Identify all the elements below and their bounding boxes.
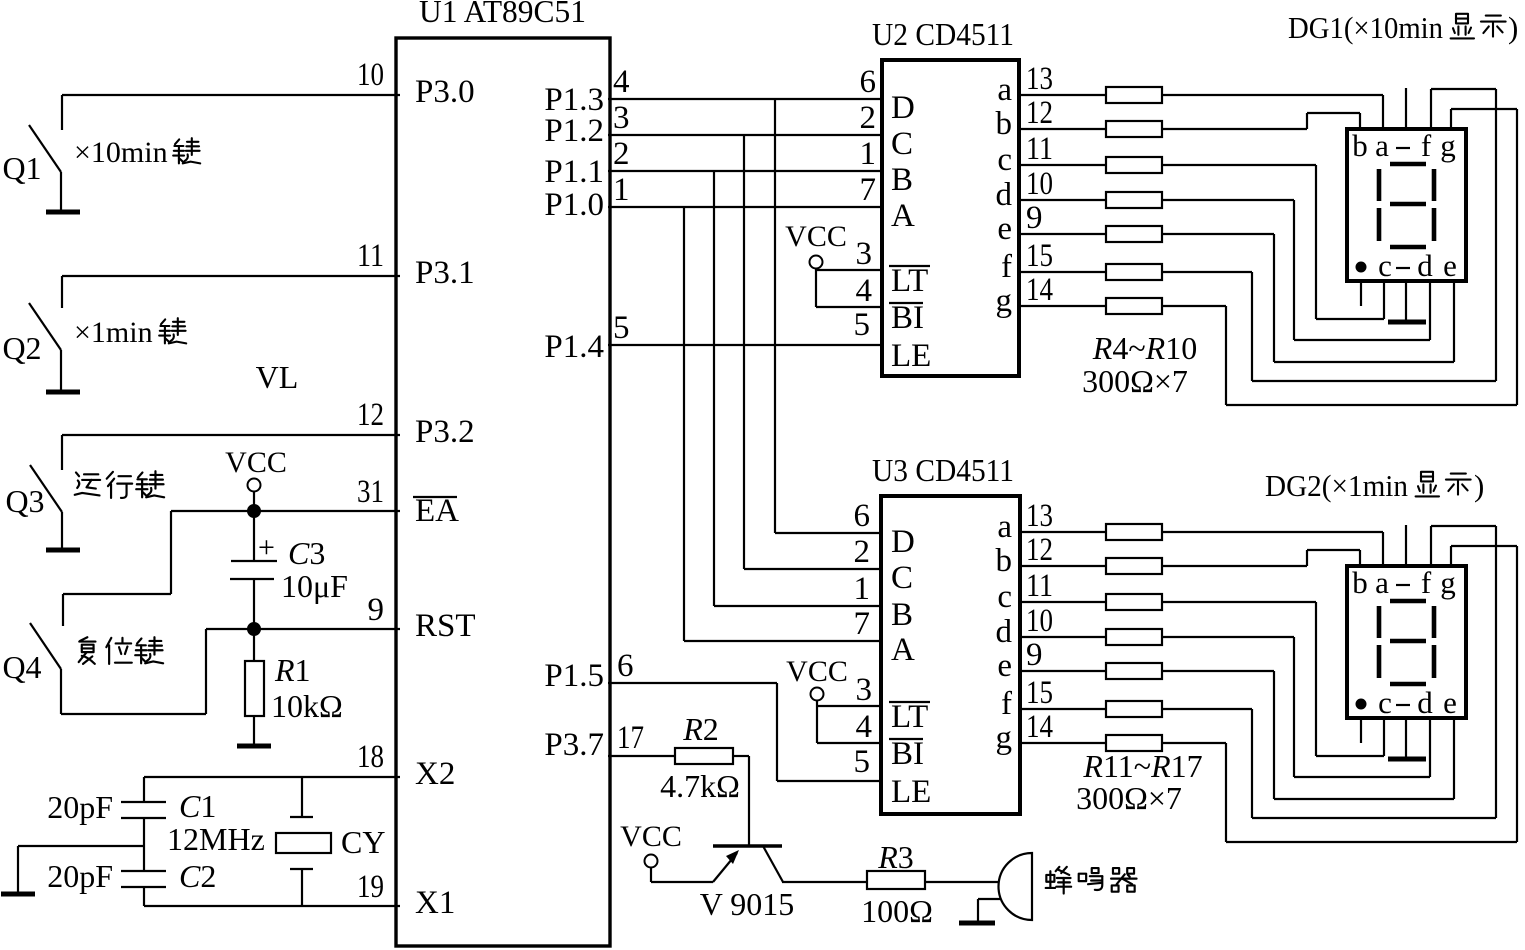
wire U3 e to resistor: [1020, 670, 1106, 672]
svg-text:a: a: [1375, 128, 1389, 163]
svg-text:×1min: ×1min: [74, 316, 153, 349]
capacitor C2: [121, 871, 166, 887]
resistor segment f (R11-R17): [1106, 701, 1162, 717]
resistor segment b (R11-R17): [1106, 558, 1162, 574]
svg-text:RST: RST: [415, 608, 476, 644]
wire segment-a net (DG1): [1162, 95, 1383, 129]
wire segment-c net (DG2): [1162, 602, 1384, 756]
svg-text:BI: BI: [891, 300, 924, 336]
svg-text:e: e: [1443, 248, 1457, 283]
svg-text:LE: LE: [891, 338, 931, 374]
svg-text:c: c: [1378, 685, 1392, 720]
svg-text:f: f: [1001, 249, 1012, 285]
wire segment-g net (DG1): [1162, 109, 1517, 405]
svg-text:LE: LE: [891, 774, 931, 810]
svg-text:): ): [1508, 10, 1518, 45]
segment top (DG1): [1390, 162, 1426, 167]
svg-text:14: 14: [1026, 272, 1053, 308]
resistor R2: [675, 748, 733, 764]
label reset key: [79, 637, 96, 664]
switch Q1: [29, 95, 62, 210]
svg-text:f: f: [1421, 565, 1432, 600]
junction node EA/VCC: [248, 505, 260, 517]
svg-text:e: e: [997, 648, 1012, 684]
svg-text:4.7kΩ: 4.7kΩ: [660, 768, 740, 804]
crystal CY: [276, 777, 331, 906]
svg-text:6: 6: [860, 64, 877, 100]
svg-text:Q4: Q4: [2, 649, 41, 685]
svg-text:X2: X2: [415, 756, 455, 792]
resistor segment f (R4-R10): [1106, 264, 1162, 280]
wire P1.1 to U2 B: [608, 170, 882, 172]
wire collector to R3: [782, 881, 867, 883]
svg-text:g: g: [1440, 128, 1456, 163]
svg-text:g: g: [996, 283, 1013, 319]
segment middle (DG1): [1390, 202, 1426, 207]
svg-text:2: 2: [613, 136, 630, 172]
buzzer: [999, 853, 1033, 920]
svg-text:d: d: [996, 614, 1013, 650]
svg-text:e: e: [1443, 685, 1457, 720]
wire U2 c to resistor: [1019, 164, 1106, 166]
svg-text:12: 12: [1026, 95, 1053, 131]
wire segment-b net (DG1): [1162, 113, 1360, 129]
decimal point dot (DG1): [1357, 263, 1366, 272]
ground (crystal): [1, 892, 35, 897]
wire C3 to RST node: [253, 579, 255, 629]
wire segment-d net (DG2): [1162, 637, 1430, 777]
stub dash pin top (DG2): [1405, 525, 1407, 566]
segment upper-right (DG2): [1432, 606, 1437, 638]
svg-text:3: 3: [856, 236, 873, 272]
svg-text:VCC: VCC: [620, 820, 682, 853]
svg-text:3: 3: [613, 100, 630, 136]
ground (DG1): [1388, 320, 1426, 325]
resistor segment e (R11-R17): [1106, 663, 1162, 679]
svg-text:9: 9: [1026, 637, 1043, 673]
svg-text:C: C: [891, 560, 913, 596]
wire U3 f to resistor: [1020, 708, 1106, 710]
resistor segment g (R11-R17): [1106, 735, 1162, 751]
wire P1.4 to U2 LE: [608, 344, 882, 346]
wire U2 g to resistor: [1019, 305, 1106, 307]
wire caps midpoint to ground: [18, 846, 144, 892]
svg-text:12MHz: 12MHz: [167, 821, 265, 857]
svg-text:P1.5: P1.5: [544, 658, 604, 694]
wire buzzer to ground: [978, 899, 1000, 921]
svg-text:15: 15: [1026, 238, 1053, 274]
ground (buzzer): [959, 921, 995, 926]
svg-text:300Ω×7: 300Ω×7: [1082, 363, 1188, 399]
svg-text:VCC: VCC: [786, 655, 848, 688]
stub decimal point pin (DG2): [1360, 718, 1362, 743]
svg-text:9: 9: [1026, 200, 1043, 236]
svg-text:×10min: ×10min: [74, 136, 168, 169]
wire VCC to EA node: [253, 491, 255, 511]
svg-text:R3: R3: [877, 839, 914, 875]
svg-text:e: e: [997, 211, 1012, 247]
segment upper-left (DG2): [1377, 606, 1382, 638]
svg-text:B: B: [891, 597, 913, 633]
ground for Q2: [46, 390, 80, 395]
segment upper-left (DG1): [1377, 169, 1382, 201]
svg-text:10μF: 10μF: [281, 568, 348, 604]
resistor segment c (R4-R10): [1106, 157, 1162, 173]
wire U3 a to resistor: [1020, 531, 1106, 533]
svg-text:A: A: [891, 632, 915, 668]
svg-text:R2: R2: [682, 711, 719, 747]
wire P3.7 to R2: [608, 755, 675, 757]
svg-text:6: 6: [854, 498, 871, 534]
wire common cathode to ground (DG2): [1405, 718, 1407, 757]
segment lower-right (DG2): [1432, 645, 1437, 678]
svg-text:13: 13: [1026, 61, 1053, 97]
svg-text:P3.2: P3.2: [415, 414, 475, 450]
segment lower-right (DG1): [1432, 208, 1437, 241]
segment lower-left (DG1): [1377, 208, 1382, 241]
svg-text:g: g: [1440, 565, 1456, 600]
wire X1: [144, 905, 400, 907]
svg-text:R1: R1: [274, 652, 311, 688]
svg-text:): ): [1474, 468, 1484, 503]
wire VCC to emitter: [651, 868, 713, 882]
svg-text:20pF: 20pF: [47, 858, 113, 894]
resistor segment d (R11-R17): [1106, 629, 1162, 645]
svg-text:7: 7: [854, 606, 871, 642]
junction node RST: [248, 623, 260, 635]
svg-text:10: 10: [357, 57, 384, 93]
segment lower-left (DG2): [1377, 645, 1382, 678]
svg-text:P1.0: P1.0: [544, 187, 604, 223]
resistor R3: [867, 871, 925, 889]
wire RST: [206, 628, 400, 630]
svg-text:U3 CD4511: U3 CD4511: [872, 452, 1014, 488]
svg-text:c: c: [997, 142, 1012, 178]
segment middle (DG2): [1390, 639, 1426, 644]
wire P3.2 to Q3: [62, 434, 400, 436]
svg-text:X1: X1: [415, 885, 455, 921]
transistor Q V9015 (PNP): [713, 846, 783, 882]
wire Q4 to RST: [61, 629, 206, 714]
wire segment-f net (DG1): [1162, 89, 1496, 381]
svg-text:18: 18: [357, 739, 384, 775]
resistor R1: [245, 661, 264, 716]
svg-text:b: b: [1352, 128, 1368, 163]
svg-text:A: A: [891, 198, 915, 234]
ground for Q1: [46, 210, 80, 215]
svg-text:f: f: [1001, 686, 1012, 722]
resistor segment a (R11-R17): [1106, 524, 1162, 540]
svg-text:C3: C3: [288, 535, 325, 571]
wire VCC to LT/BI (U2): [816, 268, 882, 307]
svg-text:Q2: Q2: [2, 330, 41, 366]
decimal point dot (DG2): [1357, 700, 1366, 709]
svg-text:d: d: [1417, 248, 1433, 283]
svg-text:g: g: [996, 720, 1013, 756]
wire R2 to base: [733, 756, 749, 846]
svg-text:5: 5: [854, 744, 871, 780]
wire left vertical X2 to C1: [143, 777, 145, 802]
svg-text:f: f: [1421, 128, 1432, 163]
wire U2 e to resistor: [1019, 233, 1106, 235]
IC U1 AT89C51 body: [396, 38, 610, 946]
svg-text:3: 3: [856, 672, 873, 708]
wire U3 d to resistor: [1020, 636, 1106, 638]
svg-text:100Ω: 100Ω: [861, 893, 933, 929]
svg-text:1: 1: [860, 136, 877, 172]
label buzzer (Chinese): [1046, 867, 1071, 894]
IC U3 CD4511 body: [881, 496, 1020, 814]
svg-text:b: b: [996, 543, 1013, 579]
wire segment-f net (DG2): [1162, 526, 1496, 818]
capacitor C1: [121, 802, 166, 818]
label dash bottom (DG2): [1396, 704, 1410, 706]
svg-text:c: c: [997, 579, 1012, 615]
wire EA branch down to Q4: [63, 511, 171, 594]
resistor segment d (R4-R10): [1106, 192, 1162, 208]
wire segment-e net (DG2): [1162, 671, 1454, 799]
label run key: [75, 472, 100, 495]
wire P3.0 to Q1: [62, 94, 400, 96]
svg-text:19: 19: [357, 869, 384, 905]
ground for Q3: [46, 548, 80, 553]
svg-text:VCC: VCC: [785, 220, 847, 253]
wire P1.2 to U2 C: [608, 134, 882, 136]
svg-text:10: 10: [1026, 603, 1053, 639]
ground (DG2): [1388, 757, 1426, 762]
svg-text:14: 14: [1026, 709, 1053, 745]
svg-text:LT: LT: [891, 263, 928, 299]
wire tap P1.1 down to U3 B: [714, 171, 881, 606]
svg-text:10kΩ: 10kΩ: [271, 688, 343, 724]
svg-text:a: a: [1375, 565, 1389, 600]
wire U3 b to resistor: [1020, 565, 1106, 567]
svg-text:CY: CY: [341, 824, 385, 860]
svg-text:7: 7: [860, 172, 877, 208]
svg-text:V 9015: V 9015: [700, 886, 795, 922]
wire P1.0 to U2 A: [608, 206, 882, 208]
wire U2 b to resistor: [1019, 128, 1106, 130]
resistor segment c (R11-R17): [1106, 594, 1162, 610]
wire R3 to buzzer: [925, 881, 999, 883]
wire segment-g net (DG2): [1162, 546, 1517, 842]
switch Q2: [29, 276, 62, 390]
svg-text:a: a: [997, 72, 1012, 108]
svg-text:U2 CD4511: U2 CD4511: [872, 16, 1014, 52]
stub dash pin top (DG1): [1405, 88, 1407, 129]
svg-text:4: 4: [613, 64, 630, 100]
wire U3 g to resistor: [1020, 742, 1106, 744]
svg-text:11: 11: [357, 238, 384, 274]
resistor segment g (R4-R10): [1106, 298, 1162, 314]
display DG1 body: [1347, 129, 1466, 281]
svg-text:+: +: [258, 531, 275, 564]
svg-text:P3.0: P3.0: [415, 74, 475, 110]
svg-text:LT: LT: [891, 699, 928, 735]
svg-text:VCC: VCC: [225, 446, 287, 479]
wire common cathode to ground (DG1): [1405, 281, 1407, 320]
svg-text:11: 11: [1026, 568, 1053, 604]
IC U2 CD4511 body: [882, 60, 1019, 376]
svg-text:5: 5: [854, 307, 871, 343]
segment bottom (DG1): [1390, 245, 1426, 250]
wire U2 d to resistor: [1019, 199, 1106, 201]
svg-text:P1.1: P1.1: [544, 154, 604, 190]
label dash top (DG1): [1396, 147, 1410, 149]
svg-text:d: d: [996, 177, 1013, 213]
wire segment-b net (DG2): [1162, 550, 1360, 566]
resistor segment a (R4-R10): [1106, 87, 1162, 103]
resistor segment e (R4-R10): [1106, 226, 1162, 242]
segment upper-right (DG1): [1432, 169, 1437, 201]
svg-text:U1 AT89C51: U1 AT89C51: [419, 0, 586, 29]
wire C2 to X1: [143, 887, 145, 906]
capacitor C3: [230, 561, 277, 579]
svg-text:B: B: [891, 162, 913, 198]
wire EA to VCC node: [171, 510, 400, 512]
svg-text:R11~R17: R11~R17: [1082, 748, 1202, 784]
svg-text:DG2(×1min: DG2(×1min: [1265, 468, 1408, 503]
svg-text:2: 2: [860, 100, 877, 136]
label dash bottom (DG1): [1396, 267, 1410, 269]
switch Q4: [30, 594, 63, 714]
svg-text:1: 1: [613, 172, 630, 208]
wire tap P1.0 down to U3 A: [684, 207, 881, 641]
wire segment-e net (DG1): [1162, 234, 1454, 362]
wire C1 to C2: [143, 818, 145, 871]
wire U3 c to resistor: [1020, 601, 1106, 603]
wire tap P1.3 down to U3 D: [775, 99, 881, 533]
svg-text:4: 4: [856, 709, 873, 745]
svg-text:EA: EA: [415, 493, 459, 529]
svg-text:D: D: [891, 524, 915, 560]
svg-text:17: 17: [617, 720, 644, 756]
switch Q3: [30, 435, 62, 548]
svg-text:c: c: [1378, 248, 1392, 283]
svg-text:12: 12: [357, 397, 384, 433]
svg-text:5: 5: [613, 310, 630, 346]
wire U2 f to resistor: [1019, 271, 1106, 273]
wire P1.3 to U2 D: [608, 98, 882, 100]
wire VCC to LT/BI (U3): [817, 700, 881, 743]
wire segment-a net (DG2): [1162, 532, 1383, 566]
svg-text:P1.2: P1.2: [544, 113, 604, 149]
svg-text:C: C: [891, 126, 913, 162]
segment top (DG2): [1390, 599, 1426, 604]
svg-text:11: 11: [1026, 131, 1053, 167]
wire segment-d net (DG1): [1162, 200, 1430, 340]
ground below R1: [237, 744, 271, 749]
svg-text:300Ω×7: 300Ω×7: [1076, 780, 1182, 816]
svg-text:P3.1: P3.1: [415, 255, 475, 291]
wire X2: [144, 776, 400, 778]
stub decimal point pin (DG1): [1360, 281, 1362, 306]
svg-text:R4~R10: R4~R10: [1092, 330, 1197, 366]
wire to C3: [253, 511, 255, 561]
svg-text:DG1(×10min: DG1(×10min: [1288, 10, 1443, 45]
svg-text:20pF: 20pF: [47, 789, 113, 825]
svg-text:a: a: [997, 509, 1012, 545]
wire segment-c net (DG1): [1162, 165, 1384, 319]
wire P1.5 to U3 LE: [608, 683, 881, 781]
svg-text:9: 9: [368, 592, 385, 628]
svg-text:12: 12: [1026, 532, 1053, 568]
svg-text:10: 10: [1026, 166, 1053, 202]
svg-text:P3.7: P3.7: [544, 727, 604, 763]
svg-text:4: 4: [856, 273, 873, 309]
svg-text:31: 31: [357, 474, 384, 510]
svg-text:15: 15: [1026, 675, 1053, 711]
svg-text:VL: VL: [256, 359, 299, 395]
wire RST node to R1: [253, 629, 255, 661]
svg-text:Q3: Q3: [5, 483, 44, 519]
wire P3.1 to Q2: [62, 275, 400, 277]
label dash top (DG2): [1396, 584, 1410, 586]
wire tap P1.2 down to U3 C: [744, 135, 881, 569]
wire U2 a to resistor: [1019, 94, 1106, 96]
resistor segment b (R4-R10): [1106, 121, 1162, 137]
svg-text:13: 13: [1026, 498, 1053, 534]
svg-text:P1.4: P1.4: [544, 329, 604, 365]
svg-text:BI: BI: [891, 736, 924, 772]
segment bottom (DG2): [1390, 682, 1426, 687]
wire R1 to ground: [253, 716, 255, 744]
svg-text:D: D: [891, 90, 915, 126]
svg-text:2: 2: [854, 534, 871, 570]
svg-text:1: 1: [854, 571, 871, 607]
svg-text:C1: C1: [179, 788, 216, 824]
svg-text:6: 6: [617, 648, 634, 684]
display DG2 body: [1347, 566, 1466, 718]
svg-text:b: b: [996, 106, 1013, 142]
svg-text:d: d: [1417, 685, 1433, 720]
svg-text:C2: C2: [179, 858, 216, 894]
svg-text:Q1: Q1: [2, 150, 41, 186]
svg-text:b: b: [1352, 565, 1368, 600]
